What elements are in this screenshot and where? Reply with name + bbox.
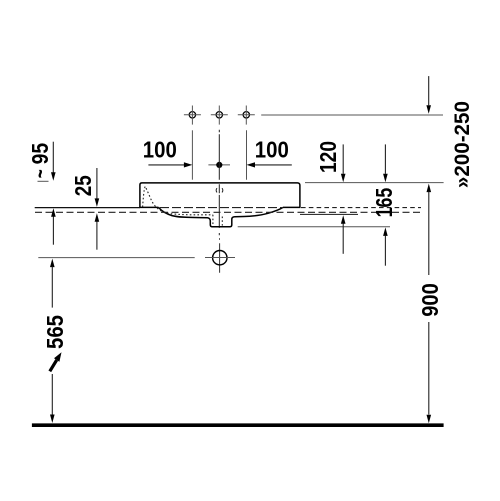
basin underside level line right (300, 213, 358, 215)
basin rim bottom right (283, 206, 301, 208)
svg-text:95: 95 (27, 143, 53, 165)
dim ~95 (27, 142, 56, 245)
svg-text:100: 100 (143, 137, 177, 163)
drain trap crosshair (205, 257, 235, 259)
dim 100 left (143, 137, 193, 168)
extension line right tap (246, 130, 248, 179)
svg-text:565: 565 (42, 315, 68, 349)
tap hole level line right (261, 114, 443, 116)
tap hole circle right with crosshair (238, 106, 255, 125)
basin top level line right (305, 182, 444, 184)
basin rim bottom left (139, 206, 158, 208)
565 top reference line (38, 257, 194, 259)
svg-text:120: 120 (315, 141, 341, 173)
svg-text:100: 100 (255, 137, 289, 163)
drain trap circle (213, 251, 227, 265)
adjustable height diagonal arrow (50, 352, 62, 371)
deck tap hole dashed circle (216, 188, 223, 192)
counter line A solid left (35, 207, 140, 209)
dim 900 (417, 184, 443, 424)
counter line A dashed right (301, 207, 421, 209)
centerline axis upper (218, 130, 220, 236)
drain hole hidden wall right dotted (221, 217, 223, 226)
tap hole circle center with crosshair (211, 106, 228, 125)
dim 25 (70, 168, 99, 250)
counter line A dashed under basin (160, 207, 283, 209)
centerline axis lower through trap (219, 238, 221, 272)
svg-text:165: 165 (371, 188, 397, 218)
svg-text:900: 900 (417, 283, 443, 317)
bowl underside (159, 207, 284, 226)
svg-text:»200-250: »200-250 (450, 101, 474, 188)
bowl hidden inner wall dotted (143, 186, 213, 214)
drain bottom extension line (238, 226, 390, 228)
dim 165 (371, 144, 397, 265)
drain hole hidden wall left dotted (212, 215, 214, 226)
dim 100 right (247, 137, 292, 168)
center mark dot (208, 162, 230, 168)
tick at basin top level left (38, 180, 49, 182)
dim 120 (315, 141, 346, 254)
floor line (32, 423, 444, 427)
basin outline (140, 183, 300, 208)
svg-text:~: ~ (27, 169, 53, 178)
dim 565 (42, 259, 68, 423)
tap hole circle left with crosshair (184, 106, 201, 125)
dim 200-250 (426, 76, 474, 188)
line B dashed full (35, 211, 421, 213)
extension line left tap (191, 130, 193, 179)
svg-text:25: 25 (70, 175, 96, 196)
